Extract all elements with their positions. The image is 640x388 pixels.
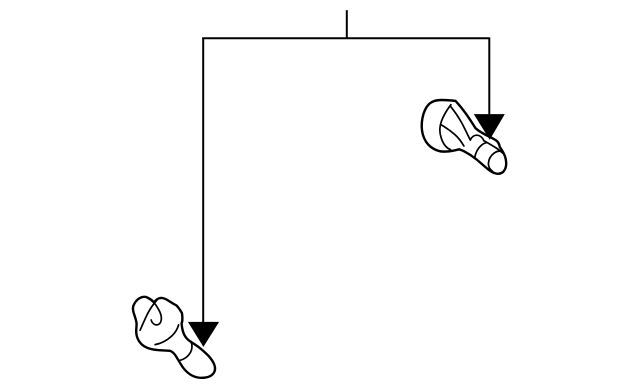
part: right nozzle end cap	[488, 151, 500, 171]
part: right nozzle crease left	[440, 105, 451, 150]
wire: left vertical leader	[202, 38, 204, 323]
part: right nozzle barrel band	[475, 143, 488, 159]
part: left nozzle U loop	[151, 300, 161, 325]
part: left nozzle diagonal crease	[140, 300, 157, 330]
part: right nozzle crease right leg	[450, 106, 470, 140]
wire: right vertical leader	[488, 38, 490, 115]
part: right nozzle collar arc	[470, 135, 484, 141]
part: right nozzle barrel ridge	[484, 141, 503, 154]
wire: horizontal bracket	[202, 37, 489, 39]
arrowhead left	[188, 322, 219, 347]
wire: top vertical leader	[346, 10, 348, 38]
part: left nozzle body arc	[155, 325, 179, 345]
part: left washer nozzle outline	[133, 297, 215, 378]
part: right washer nozzle outline	[422, 100, 506, 174]
part: right nozzle lower crease	[441, 125, 464, 146]
part: left nozzle ankle band	[179, 341, 192, 360]
arrowhead right	[474, 114, 505, 140]
